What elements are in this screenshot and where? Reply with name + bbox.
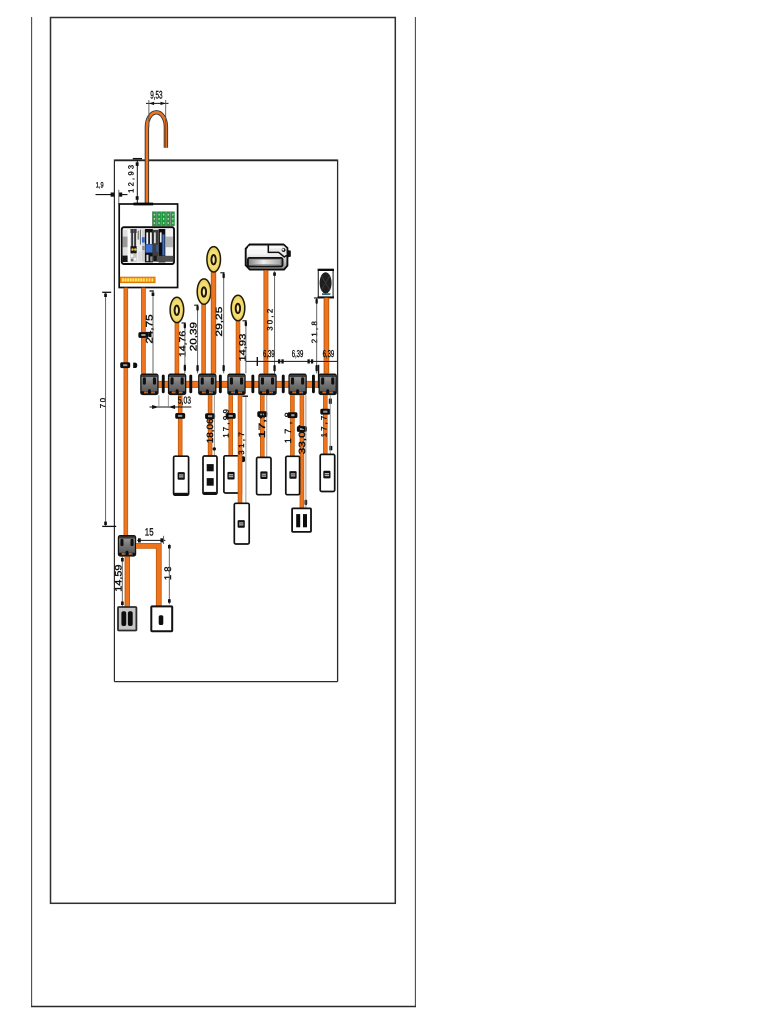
svg-text:70: 70	[98, 397, 107, 408]
wire from junction box B2 to switch S1	[178, 395, 183, 456]
svg-text:33,07: 33,07	[297, 425, 307, 455]
wire from junction box B4 to switch S3	[228, 395, 233, 456]
inner drawing frame	[51, 18, 396, 904]
dimension 18	[163, 544, 174, 604]
tick at device dim over wire row	[318, 365, 320, 388]
junction box B7	[319, 374, 337, 396]
clip on feeder wire	[120, 362, 137, 368]
double switch S2	[203, 456, 217, 494]
feeder wire from board to bottom junction box	[124, 288, 129, 536]
svg-text:15: 15	[145, 526, 154, 538]
cable clip on wire B6-S5	[287, 412, 297, 418]
dimension 17,7	[320, 395, 331, 454]
dimension 17,9	[257, 395, 267, 457]
wire from junction box B7 to switch S6	[323, 395, 328, 454]
clip on branch wire	[138, 332, 151, 338]
board green terminal strips	[152, 211, 175, 226]
junction box B5	[258, 374, 276, 396]
inter-box bar 5	[282, 375, 285, 394]
outer frame right line	[414, 17, 416, 1007]
inter-box bar 1	[162, 375, 165, 394]
dimension 14,93	[238, 320, 248, 373]
junction box B4	[227, 374, 245, 396]
board breaker module row	[122, 227, 174, 264]
dimension 21,8	[310, 298, 320, 373]
dimension 18,06	[205, 395, 216, 456]
supply cable hook arc	[147, 112, 166, 204]
dimension 12,93	[127, 159, 147, 204]
boiler wire overlay over 6,39 line	[263, 360, 268, 363]
junction box B1	[140, 374, 158, 396]
junction box B2	[168, 374, 186, 396]
outer frame left line	[31, 17, 33, 1007]
6,39 labels	[263, 349, 334, 360]
svg-text:6,39: 6,39	[323, 349, 335, 360]
dimension 15	[137, 526, 165, 544]
cable clip on wire B2-S1	[175, 413, 185, 419]
distribution board	[119, 204, 177, 288]
wire from lamp L1 to junction box B2	[175, 320, 180, 374]
inter-box bar 2	[189, 375, 192, 394]
junction row horizontal wire	[147, 381, 330, 388]
wire from lamp L3 to junction box B3	[211, 270, 216, 374]
svg-text:17,9: 17,9	[257, 411, 267, 438]
wire from junction box B4 to lower switch S7	[238, 395, 243, 503]
lamp L4	[231, 295, 245, 320]
cable clip on wire B4-S7	[235, 456, 245, 462]
dimension 9,53	[146, 90, 169, 148]
switch S1	[174, 456, 189, 495]
dimension 5,03	[150, 395, 192, 409]
svg-text:17,99: 17,99	[221, 409, 230, 438]
extractor wire	[324, 298, 330, 374]
wire from lamp L4 to junction box B4	[236, 318, 241, 374]
switch S5	[286, 456, 300, 494]
room ceiling wall line	[114, 159, 337, 161]
dimension 31,7	[237, 395, 248, 503]
board orange terminal strip	[120, 277, 155, 283]
double outlet O2	[292, 508, 311, 532]
tick on wire B6-O2 above outlet	[305, 500, 308, 506]
cable clip on wire B3-S2	[205, 413, 215, 419]
boiler appliance	[246, 245, 291, 270]
svg-text:17,7: 17,7	[320, 416, 329, 438]
dimension 29,25	[214, 272, 225, 373]
svg-text:9,53: 9,53	[150, 90, 162, 102]
dimension 70	[98, 292, 116, 526]
device wire overlay over 6,39 line	[324, 360, 330, 363]
dimension 33,07	[297, 395, 307, 508]
junction box B3	[198, 374, 216, 396]
wire from junction box B6 to switch S5	[290, 395, 295, 456]
extractor device	[318, 269, 334, 298]
cable clip on wire B7-S6	[320, 409, 330, 415]
boiler wire	[263, 270, 268, 373]
svg-text:6,39: 6,39	[263, 349, 275, 360]
tick upper on wire B7-S6	[329, 399, 332, 404]
branch wire from board to junction box 1	[141, 288, 146, 374]
bottom junction box J8	[118, 535, 136, 557]
svg-text:29,25: 29,25	[214, 307, 224, 337]
dimension 14,76	[178, 323, 188, 374]
lower switch S7	[234, 503, 249, 544]
wire from junction box B6 to outlet O2	[300, 395, 305, 508]
inter-box bar 3	[219, 375, 222, 394]
inter-box bar 6	[312, 375, 315, 394]
wire from J8 down to outlet O1	[125, 557, 130, 607]
long drop wire overlay across switch S3 edge	[238, 455, 243, 495]
lamp L3	[207, 247, 221, 272]
lamp L1	[170, 297, 184, 322]
cable clip on wire B5-S4	[257, 411, 267, 417]
inter-box bar 4	[251, 375, 254, 394]
lamp L2	[197, 279, 211, 304]
room right wall	[337, 160, 339, 682]
wire from junction box B3 to switch S2	[208, 395, 213, 456]
wire from J8 right to corner and down to switch S8	[136, 546, 159, 607]
switch S8	[151, 606, 172, 631]
svg-text:5,03: 5,03	[178, 395, 191, 406]
svg-text:24,75: 24,75	[144, 314, 155, 343]
switch S4	[257, 457, 271, 494]
svg-text:6,39: 6,39	[292, 349, 304, 360]
wire from lamp L2 to junction box B3	[201, 302, 206, 374]
dimension row 6,39 6,39 6,39	[246, 357, 338, 366]
dimension 20,39	[189, 305, 200, 374]
dimension 30,2	[266, 271, 276, 373]
tick lower on wire B7-S6	[329, 446, 332, 450]
cable clip on wire B4-S3	[226, 413, 236, 419]
switch S6	[320, 454, 335, 491]
wire from junction box B5 to switch S4	[260, 395, 265, 457]
switch S3	[224, 456, 239, 493]
junction box B6	[288, 374, 306, 396]
room left wall	[113, 160, 115, 682]
room floor line	[114, 681, 337, 683]
svg-text:18,06: 18,06	[205, 419, 215, 444]
outer frame bottom line	[31, 1006, 416, 1008]
dimension 14,59	[113, 557, 124, 607]
outlet O1	[118, 607, 136, 631]
svg-text:14,76: 14,76	[178, 331, 188, 357]
cable clip on wire B6-O2 upper	[297, 426, 307, 432]
dimension 24,75	[144, 291, 155, 374]
dimension 1,9	[96, 180, 128, 205]
svg-text:1,9: 1,9	[96, 180, 104, 189]
